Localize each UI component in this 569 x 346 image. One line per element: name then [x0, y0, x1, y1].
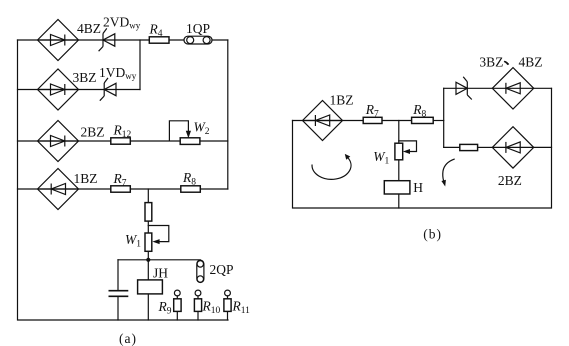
svg-text:R4: R4 — [149, 22, 163, 40]
svg-text:W2: W2 — [194, 120, 210, 138]
svg-text:3BZ: 3BZ — [479, 55, 503, 70]
svg-text:1BZ: 1BZ — [330, 93, 354, 108]
svg-text:1BZ: 1BZ — [74, 171, 98, 186]
svg-text:R8: R8 — [412, 102, 426, 120]
svg-text:1QP: 1QP — [186, 21, 210, 36]
svg-text:R7: R7 — [113, 171, 127, 189]
svg-text:(a): (a) — [119, 331, 137, 346]
svg-text:3BZ: 3BZ — [73, 70, 97, 85]
svg-text:(b): (b) — [423, 227, 442, 242]
svg-text:H: H — [413, 180, 423, 195]
svg-text:W1: W1 — [373, 149, 389, 167]
svg-text:1VDwy: 1VDwy — [99, 65, 137, 81]
svg-text:R10: R10 — [202, 299, 221, 317]
svg-text:W1: W1 — [125, 232, 141, 250]
svg-text:2BZ: 2BZ — [498, 173, 522, 188]
svg-text:2VDwy: 2VDwy — [103, 15, 141, 31]
svg-text:4BZ: 4BZ — [519, 55, 543, 70]
svg-text:R7: R7 — [365, 102, 379, 120]
svg-text:R9: R9 — [158, 299, 172, 317]
svg-text:R12: R12 — [113, 123, 132, 141]
svg-text:2QP: 2QP — [210, 262, 234, 277]
svg-text:4BZ: 4BZ — [77, 21, 101, 36]
svg-text:JH: JH — [153, 266, 168, 281]
svg-text:R11: R11 — [232, 299, 251, 317]
svg-text:2BZ: 2BZ — [81, 125, 105, 140]
svg-text:R8: R8 — [182, 170, 196, 188]
